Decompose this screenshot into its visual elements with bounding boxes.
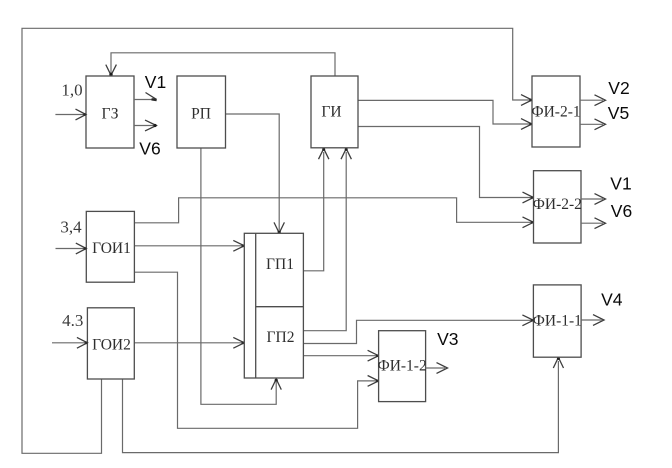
arrowhead up into ГИ bottom (right) <box>341 148 351 159</box>
label V1 top <box>145 72 166 92</box>
svg-text:ГП2: ГП2 <box>267 329 295 346</box>
wire РП bottom to ГП2 bottom <box>201 148 276 404</box>
block ГП1-ГП2 outer <box>244 233 303 378</box>
label V5 <box>608 103 629 123</box>
svg-text:ФИ-2-1: ФИ-2-1 <box>531 104 580 121</box>
block ГП1-ГП2 divider <box>256 306 304 308</box>
svg-text:V6: V6 <box>611 201 632 221</box>
wire ГОИ1 to ФИ-2-2 lower input <box>134 198 531 223</box>
arrowhead into ФИ-2-1 upper input <box>521 95 532 106</box>
wire ГОИ1 to ГП1 left input <box>134 245 242 247</box>
input arrow 3,4 into ГОИ1 <box>56 243 87 254</box>
label V4 <box>601 290 623 310</box>
wire ГП2 to ГИ bottom <box>303 152 346 331</box>
wire feedback loop ГОИ2 to ФИ-2-1 (left frame) <box>22 28 530 453</box>
label 4.3 <box>62 311 83 330</box>
input arrow 1,0 into ГЗ <box>55 109 86 120</box>
svg-text:1,0: 1,0 <box>61 81 82 100</box>
block ФИ-2-1 <box>531 76 580 147</box>
svg-text:ГЗ: ГЗ <box>101 106 118 123</box>
arrowhead into ГП1 left input <box>233 240 244 251</box>
svg-text:V4: V4 <box>601 290 623 310</box>
block ГП1-ГП2 inner vertical line <box>255 233 257 378</box>
svg-text:4.3: 4.3 <box>62 311 83 330</box>
output arrow V6 from ФИ-2-2 <box>581 218 606 229</box>
arrowhead up into ФИ-1-1 bottom <box>553 357 563 368</box>
label V3 <box>437 329 458 349</box>
wire ГОИ1 to ФИ-1-2 lower input <box>134 272 376 428</box>
output arrow V4 from ФИ-1-1 <box>581 315 604 326</box>
svg-text:V2: V2 <box>608 78 629 98</box>
wire ГП1 to ГИ bottom <box>303 152 323 271</box>
output arrow V5 from ФИ-2-1 <box>580 119 606 130</box>
label V2 <box>608 78 629 98</box>
arrowhead into ФИ-1-2 upper input <box>368 350 379 361</box>
svg-text:РП: РП <box>191 106 211 123</box>
label V6 right <box>611 201 632 221</box>
label V1 right <box>610 174 631 194</box>
block ФИ-2-2 <box>533 171 582 243</box>
block ФИ-1-1 <box>533 285 582 357</box>
svg-text:ГП1: ГП1 <box>266 256 294 273</box>
input arrow 4.3 into ГОИ2 <box>52 337 87 348</box>
wire feedback ГИ to ГЗ top <box>111 53 335 76</box>
label V6 top <box>139 139 160 159</box>
arrowhead up into ГП2 bottom <box>271 379 281 390</box>
svg-text:ГОИ1: ГОИ1 <box>92 240 131 257</box>
wire ГИ to ФИ-2-2 upper input <box>358 127 532 198</box>
wire ГИ to ФИ-2-1 lower input <box>358 100 530 124</box>
arrowhead down into ГП1 top <box>274 222 284 233</box>
wire РП to ГП1 top <box>226 114 280 230</box>
svg-text:ГОИ2: ГОИ2 <box>92 337 131 354</box>
svg-text:V5: V5 <box>608 103 629 123</box>
arrowhead into ФИ-1-1 left input <box>522 315 533 326</box>
block ГОИ2 <box>87 308 134 379</box>
arrowhead into ФИ-2-1 lower input <box>521 119 532 130</box>
svg-text:ФИ-1-1: ФИ-1-1 <box>533 312 582 329</box>
arrowhead into ГП2 left input <box>233 337 244 348</box>
svg-text:ГИ: ГИ <box>321 104 341 121</box>
wire ГОИ2 to ГП2 left input <box>134 342 242 344</box>
block РП <box>177 76 226 148</box>
svg-text:3,4: 3,4 <box>60 218 82 237</box>
arrowhead down into ГЗ top <box>106 65 117 77</box>
output arrow V1 from ФИ-2-2 <box>581 194 606 205</box>
svg-text:ФИ-1-2: ФИ-1-2 <box>377 358 426 375</box>
output arrow V1 from ГЗ <box>134 93 157 102</box>
label 3,4 <box>60 218 82 237</box>
block ГИ <box>311 76 358 148</box>
block ГЗ <box>86 76 134 148</box>
arrowhead into ФИ-2-2 upper input <box>523 192 534 203</box>
label ГП1 <box>266 256 294 273</box>
wire ГП2 to ФИ-1-1 left input <box>303 320 531 343</box>
svg-text:V1: V1 <box>145 72 166 92</box>
label 1,0 <box>61 81 82 100</box>
arrowhead up into ГИ bottom (left) <box>319 148 329 159</box>
block ФИ-1-2 <box>377 331 426 402</box>
label ГП2 <box>267 329 295 346</box>
wire ГП2 to ФИ-1-2 upper input <box>303 355 376 357</box>
output arrow V2 from ФИ-2-1 <box>580 95 606 106</box>
output arrow V3 from ФИ-1-2 <box>426 363 448 374</box>
svg-text:ФИ-2-2: ФИ-2-2 <box>533 196 582 213</box>
block ГОИ1 <box>86 211 134 282</box>
svg-text:V3: V3 <box>437 329 458 349</box>
svg-text:V1: V1 <box>610 174 631 194</box>
output arrow V6 from ГЗ <box>134 120 157 131</box>
wire ГОИ2 bottom to ФИ-1-1 bottom <box>123 361 559 453</box>
arrowhead into ФИ-2-2 lower input <box>523 217 534 228</box>
svg-text:V6: V6 <box>139 139 160 159</box>
arrowhead into ФИ-1-2 lower input <box>368 376 379 387</box>
